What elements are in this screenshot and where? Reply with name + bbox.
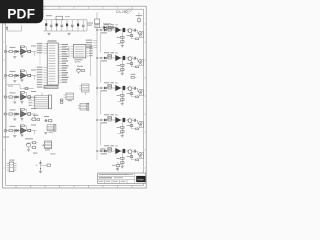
resistor R38 bias bbox=[131, 91, 133, 97]
op-amp U35 bbox=[115, 85, 121, 91]
transistor Q3 bbox=[25, 138, 33, 139]
connector CN4 bbox=[82, 84, 90, 92]
wire bbox=[125, 87, 128, 89]
resistor R27 feedback bbox=[121, 60, 123, 73]
ground bbox=[27, 149, 30, 151]
op-amp U45 bbox=[115, 117, 121, 123]
svg-text:PDF: PDF bbox=[7, 7, 35, 22]
connector CN6 bbox=[80, 104, 87, 111]
transistor Q35 bbox=[128, 87, 132, 91]
svg-text:Altair: Altair bbox=[137, 178, 144, 182]
IC U11 bbox=[73, 45, 85, 58]
ground bbox=[121, 165, 124, 167]
capacitor C8 bbox=[6, 26, 8, 32]
diode D25 bbox=[104, 56, 106, 59]
capacitor C21 bbox=[13, 74, 15, 77]
wire bbox=[41, 92, 43, 96]
wire bbox=[34, 97, 36, 101]
wire bbox=[100, 123, 102, 146]
capacitor C1 bbox=[45, 20, 47, 23]
diode D11 bbox=[16, 50, 18, 53]
wire bus U10-U11 bbox=[65, 46, 69, 48]
ground bbox=[20, 79, 23, 81]
connector J35 bbox=[139, 90, 142, 93]
channel 2 labels bbox=[104, 52, 109, 53]
wire bbox=[19, 113, 21, 115]
wire bbox=[97, 150, 100, 152]
wire bbox=[132, 87, 134, 89]
resistor R37 feedback bbox=[121, 90, 123, 103]
wire bbox=[45, 23, 47, 31]
capacitor C35 bbox=[133, 87, 135, 90]
diode D41 bbox=[16, 113, 18, 116]
capacitor C11 bbox=[82, 20, 84, 25]
wire bbox=[111, 87, 115, 89]
resistor R45 bbox=[108, 119, 111, 121]
capacitor C31 bbox=[13, 96, 15, 99]
wire bbox=[100, 61, 102, 83]
op-amp U4a bbox=[21, 111, 27, 117]
capacitor C45 bbox=[133, 119, 135, 122]
label bbox=[100, 148, 106, 149]
resistor R12 feedback bbox=[20, 47, 22, 50]
connector J34 bbox=[100, 87, 102, 89]
wire bbox=[21, 78, 23, 80]
wire bbox=[15, 75, 18, 77]
transistor Q45 bbox=[128, 119, 132, 123]
resistor R51 bbox=[9, 129, 12, 131]
wire bbox=[26, 96, 28, 98]
ground bbox=[121, 102, 124, 104]
wire bus V2 bbox=[90, 45, 92, 76]
wire bbox=[132, 57, 134, 59]
resistor R39 bbox=[131, 76, 134, 78]
ground bbox=[44, 131, 47, 133]
op-amp U1a bbox=[21, 49, 27, 55]
title block text bbox=[99, 174, 127, 175]
wire bbox=[36, 164, 39, 166]
label stage 4 bbox=[10, 109, 16, 110]
resistor R55 bbox=[108, 150, 111, 152]
ground bbox=[13, 101, 16, 103]
label mid column bbox=[87, 23, 93, 24]
connector J4 bbox=[4, 113, 6, 115]
ground bbox=[20, 100, 23, 102]
svg-text:DA-250: DA-250 bbox=[116, 10, 128, 14]
connector J25 bbox=[139, 60, 142, 63]
wire bbox=[111, 150, 115, 152]
capacitor C6 bbox=[71, 20, 73, 25]
capacitor C5 bbox=[66, 20, 68, 24]
IC U13 bbox=[9, 162, 14, 172]
transistor Q25 bbox=[128, 57, 132, 61]
connector CN1 pin labels bbox=[32, 97, 34, 99]
connector CN5 bbox=[66, 93, 74, 100]
wire bbox=[26, 51, 28, 53]
ground bbox=[20, 117, 23, 119]
capacitor C3 bbox=[56, 20, 58, 24]
diode D45 bbox=[104, 118, 106, 121]
transistor Q5 bbox=[77, 69, 81, 73]
wire bbox=[7, 51, 10, 53]
wire bbox=[19, 75, 21, 77]
resistor R28 bias bbox=[131, 61, 133, 67]
label R37 bbox=[117, 95, 121, 96]
logo bbox=[136, 176, 145, 182]
ground bbox=[13, 55, 16, 57]
resistor R46 bbox=[108, 116, 111, 118]
wire bbox=[136, 87, 138, 89]
net labels group B bbox=[44, 67, 48, 69]
resistor R25 bbox=[25, 87, 28, 89]
wire bbox=[136, 150, 138, 152]
capacitor C33 bbox=[28, 96, 31, 98]
capacitor C52 bbox=[14, 132, 16, 134]
wire bbox=[136, 29, 138, 31]
label stage 5 bbox=[10, 126, 16, 127]
capacitor C26 bbox=[123, 56, 126, 60]
wire bbox=[102, 29, 104, 31]
transistor Q55 bbox=[128, 150, 132, 154]
label stage 2 bbox=[10, 71, 16, 72]
wire bbox=[7, 96, 10, 98]
wire bbox=[7, 30, 22, 32]
resistor pack RP1 bbox=[44, 86, 58, 89]
resistor R58 bias bbox=[131, 154, 133, 160]
resistor R11 bbox=[9, 50, 12, 52]
resistor R48 bias bbox=[131, 123, 133, 129]
diode D1 bbox=[104, 26, 107, 30]
IC U10 right pins bbox=[58, 44, 61, 46]
wire bbox=[34, 76, 36, 80]
IC U10 bbox=[47, 43, 58, 85]
wire bbox=[19, 130, 21, 132]
net label OUT1 bbox=[31, 46, 36, 47]
label R28 bbox=[127, 63, 130, 64]
diode D55 bbox=[104, 149, 106, 152]
capacitor C31 bbox=[117, 162, 119, 165]
connector J45 bbox=[139, 122, 142, 125]
op-amp U55 bbox=[115, 148, 121, 154]
wire routing stage 2 bbox=[7, 84, 21, 86]
ground bbox=[47, 32, 50, 34]
wire bbox=[7, 113, 10, 115]
resistor R56 bbox=[108, 147, 111, 149]
label stage 3 bbox=[10, 92, 16, 93]
wire bbox=[34, 114, 36, 118]
capacitor C42 bbox=[14, 115, 16, 117]
ground bbox=[20, 55, 23, 57]
resistor R36 bbox=[108, 84, 111, 86]
wire bbox=[132, 119, 134, 121]
wire bbox=[31, 130, 37, 132]
wire bbox=[111, 57, 115, 59]
ground bbox=[20, 134, 23, 136]
capacitor C11 bbox=[13, 50, 15, 53]
wire bbox=[34, 52, 36, 56]
wire bbox=[7, 75, 10, 77]
wire bbox=[102, 150, 104, 152]
capacitor C10 bbox=[77, 20, 79, 24]
IC U10 label bbox=[48, 40, 57, 41]
wire bbox=[117, 28, 119, 31]
channel 5 labels bbox=[104, 145, 109, 146]
wire bbox=[26, 130, 28, 132]
label R58 bbox=[127, 156, 130, 157]
label CN5 bbox=[68, 100, 73, 101]
diode D35 bbox=[104, 86, 106, 89]
wire input bus bbox=[6, 45, 8, 133]
wire bbox=[102, 57, 104, 59]
net label OUT4 bbox=[31, 108, 36, 109]
title block row text bbox=[99, 180, 104, 183]
resistor R1 bbox=[108, 26, 111, 29]
capacitor C56 bbox=[123, 149, 126, 153]
channel 4 labels bbox=[104, 114, 109, 115]
net label OUT3 bbox=[31, 91, 36, 92]
wire bbox=[21, 54, 23, 56]
ground bbox=[13, 79, 16, 81]
connector J3 bbox=[4, 96, 6, 98]
wire bbox=[97, 29, 100, 31]
wire bus V1 bbox=[96, 24, 98, 95]
resistor R32 feedback bbox=[20, 92, 22, 95]
label bbox=[112, 165, 116, 166]
capacitor C7 bbox=[112, 26, 114, 29]
resistor R35 bbox=[108, 87, 111, 89]
resistor R21 bbox=[9, 74, 12, 76]
wire bbox=[12, 130, 14, 132]
label R18 bbox=[127, 35, 130, 36]
wire bbox=[107, 57, 108, 59]
connector CN2 bbox=[45, 141, 52, 149]
diode D15 bbox=[104, 28, 106, 31]
capacitor C51 bbox=[13, 129, 15, 132]
connector J14 bbox=[100, 29, 102, 31]
label R57 bbox=[117, 158, 121, 159]
connector CN3 bbox=[47, 125, 54, 131]
wire bbox=[68, 47, 70, 59]
title block dividers bbox=[104, 180, 106, 184]
wire bbox=[125, 150, 128, 152]
wire bbox=[15, 130, 18, 132]
op-amp U5a bbox=[21, 128, 27, 134]
regulator U1 bbox=[56, 16, 63, 20]
inspection stamp bbox=[126, 9, 132, 14]
resistor R21 bbox=[60, 99, 63, 101]
connector J54 bbox=[100, 150, 102, 152]
resistor R25 bbox=[108, 57, 111, 59]
resistor R31 bbox=[9, 96, 12, 98]
capacitor C15 bbox=[133, 29, 135, 32]
wire bbox=[107, 29, 108, 31]
transistor Q15 bbox=[128, 29, 132, 33]
wire bbox=[107, 119, 108, 121]
diode D51 bbox=[16, 129, 18, 132]
resistor R52 feedback bbox=[20, 126, 22, 129]
wire bbox=[125, 119, 128, 121]
label Q5 bbox=[77, 66, 83, 67]
wire bbox=[31, 51, 37, 53]
capacitor C16 bbox=[123, 28, 126, 32]
capacitor C41 bbox=[13, 113, 15, 116]
wire bbox=[12, 51, 14, 53]
diode D21 bbox=[16, 74, 18, 77]
fuse F1 bbox=[96, 12, 98, 19]
wire bbox=[132, 150, 134, 152]
label U11 bbox=[75, 59, 83, 60]
wire bbox=[19, 96, 21, 98]
capacitor C36 bbox=[123, 86, 126, 90]
label R17 bbox=[117, 37, 121, 38]
label R27 bbox=[117, 65, 121, 66]
wire bbox=[136, 57, 138, 59]
wire bbox=[97, 87, 100, 89]
wire bbox=[21, 100, 23, 102]
label Q4 bbox=[33, 153, 38, 154]
wire bus V1 lower bbox=[96, 95, 98, 160]
net label OUT2 bbox=[31, 70, 36, 71]
capacitor C55 bbox=[133, 150, 135, 153]
IC U11 pins bbox=[70, 46, 73, 48]
wire bbox=[31, 75, 37, 77]
op-amp U25 bbox=[115, 55, 121, 61]
op-amp U2a bbox=[21, 73, 27, 79]
wire bbox=[21, 117, 23, 119]
label bbox=[3, 137, 9, 138]
wire bbox=[12, 113, 14, 115]
label bbox=[103, 23, 111, 24]
wire bbox=[31, 113, 37, 115]
capacitor C23 bbox=[28, 74, 31, 76]
resistor R30 bbox=[41, 164, 48, 166]
label stage 1 bbox=[10, 47, 16, 48]
capacitor C53 bbox=[28, 129, 31, 131]
resistor R17 feedback bbox=[121, 32, 123, 45]
net labels mid bbox=[93, 40, 97, 42]
resistor R57 feedback bbox=[121, 153, 123, 166]
wire bbox=[97, 119, 100, 121]
wire bbox=[100, 91, 102, 115]
net labels group A bbox=[44, 43, 48, 45]
resistor R26 bbox=[108, 54, 111, 56]
node VCC rail bbox=[44, 19, 88, 21]
wire bbox=[107, 150, 108, 152]
wire bbox=[12, 75, 14, 77]
wire bbox=[15, 51, 18, 53]
wire bbox=[132, 29, 134, 31]
wire bbox=[34, 131, 36, 135]
diode D31 bbox=[16, 96, 18, 99]
ground bbox=[13, 134, 16, 136]
transistor Q1 bbox=[138, 13, 140, 16]
wire bbox=[111, 29, 115, 31]
label R38 bbox=[127, 93, 130, 94]
ground bbox=[121, 72, 124, 74]
label R47 bbox=[117, 127, 121, 128]
ground bbox=[13, 118, 16, 120]
wire bbox=[26, 75, 28, 77]
ground bbox=[67, 32, 70, 34]
connector J1 bbox=[4, 50, 6, 52]
wire bbox=[97, 57, 100, 59]
wire bbox=[100, 33, 102, 53]
wire bbox=[102, 119, 104, 121]
title block bbox=[98, 173, 146, 183]
capacitor C32 bbox=[14, 98, 16, 100]
wire bbox=[102, 87, 104, 89]
label CN3 bbox=[49, 132, 54, 133]
wire bbox=[19, 51, 21, 53]
resistor R18 bias bbox=[131, 33, 133, 39]
capacitor C43 bbox=[28, 113, 31, 115]
label CN2 bbox=[45, 149, 50, 150]
channel 3 labels bbox=[104, 82, 109, 83]
wire bbox=[21, 26, 23, 32]
wire bbox=[85, 92, 87, 95]
label U13 bbox=[10, 160, 15, 161]
connector CN1 bbox=[35, 96, 49, 108]
op-amp U15 bbox=[115, 27, 121, 33]
resistor R47 feedback bbox=[121, 122, 123, 135]
capacitor C46 bbox=[123, 118, 126, 122]
capacitor C30 bbox=[40, 160, 42, 172]
connector J5 bbox=[4, 129, 6, 131]
net label OUT5 bbox=[31, 125, 36, 126]
PDF badge bbox=[0, 0, 43, 23]
ground bus bbox=[44, 30, 88, 32]
op-amp U3a bbox=[21, 94, 27, 100]
wire bbox=[21, 133, 23, 135]
label R48 bbox=[127, 125, 130, 126]
resistor R41 bbox=[9, 113, 12, 115]
connector J24 bbox=[100, 57, 102, 59]
channel 1 labels bbox=[104, 24, 109, 25]
capacitor C22 bbox=[14, 77, 16, 79]
wire bbox=[111, 119, 115, 121]
capacitor C13 bbox=[28, 50, 31, 52]
wire bbox=[86, 20, 88, 31]
wire bbox=[7, 130, 10, 132]
capacitor C4 bbox=[61, 20, 63, 25]
wire bbox=[100, 27, 118, 29]
resistor R42 feedback bbox=[20, 109, 22, 112]
connector J44 bbox=[100, 119, 102, 121]
crystal X1 bbox=[32, 118, 36, 121]
ground bbox=[121, 44, 124, 46]
connector J2 bbox=[4, 74, 6, 76]
resistor R22 feedback bbox=[20, 71, 22, 74]
ground bbox=[121, 134, 124, 136]
resistor R16 bbox=[108, 26, 111, 28]
wire bbox=[125, 29, 128, 31]
wire bbox=[31, 96, 37, 98]
ground bbox=[39, 170, 42, 172]
wire bbox=[26, 113, 28, 115]
wire bbox=[39, 44, 41, 65]
wire bbox=[15, 96, 18, 98]
capacitor C25 bbox=[133, 57, 135, 60]
wire bbox=[15, 113, 18, 115]
wire bbox=[125, 57, 128, 59]
label bbox=[8, 86, 13, 87]
capacitor C2 bbox=[50, 20, 52, 25]
connector J55 bbox=[139, 153, 142, 156]
wire bbox=[107, 87, 108, 89]
resistor R15 bbox=[108, 29, 111, 31]
capacitor C9 bbox=[44, 119, 46, 122]
connector J15 bbox=[139, 32, 142, 35]
